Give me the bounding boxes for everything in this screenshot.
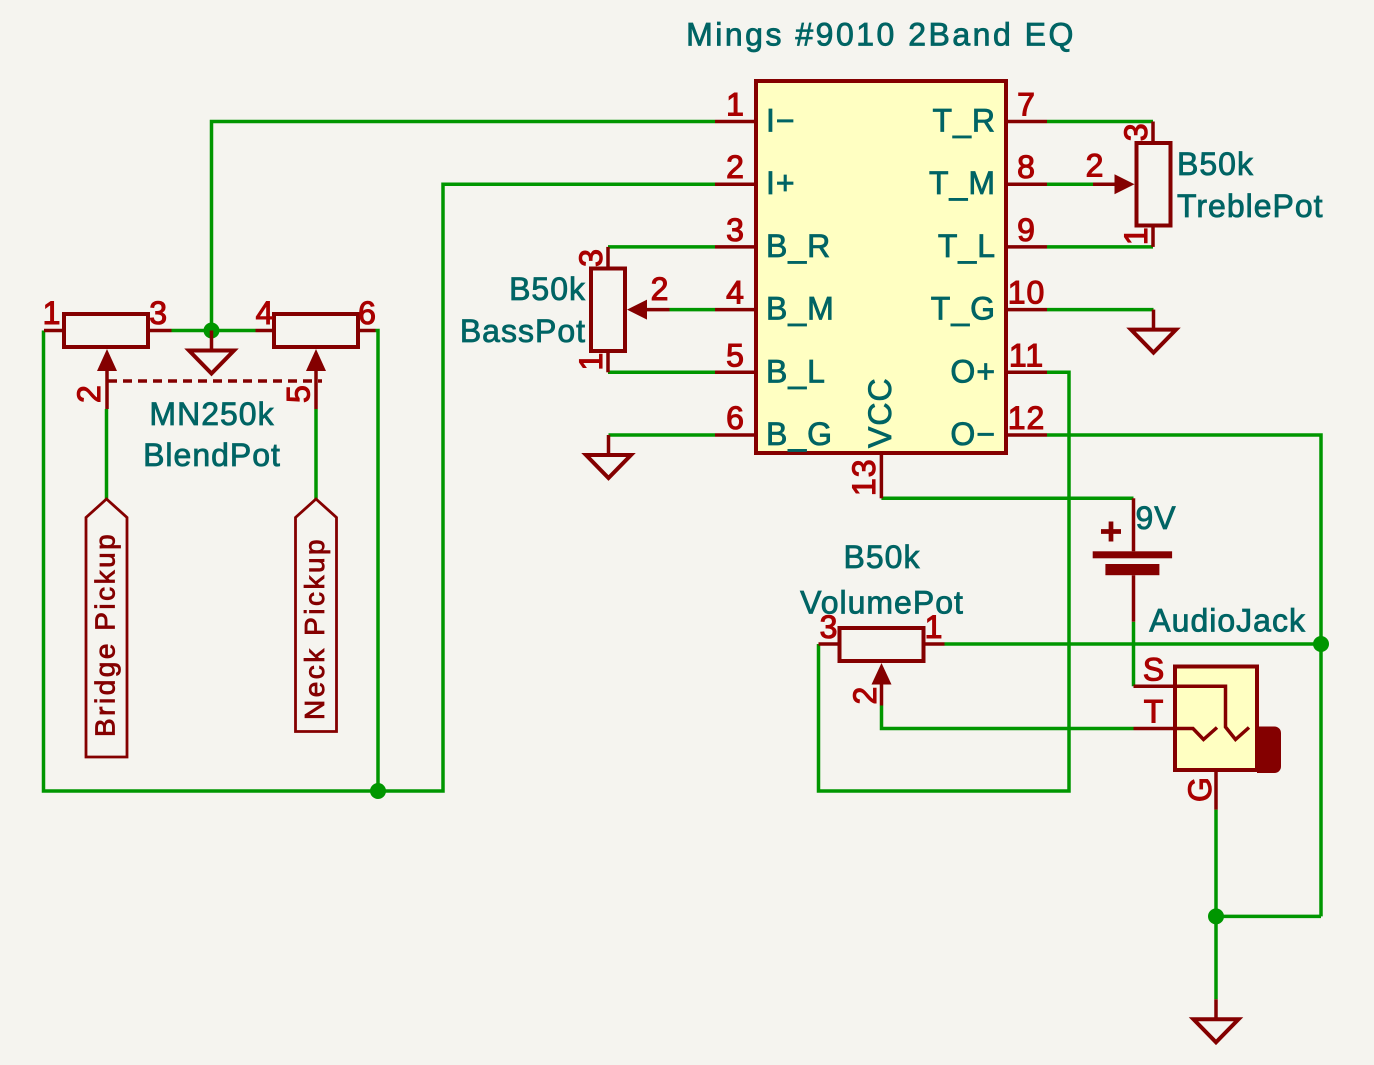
svg-text:T_M: T_M bbox=[929, 165, 996, 201]
svg-text:O−: O− bbox=[950, 416, 996, 452]
svg-text:5: 5 bbox=[281, 384, 317, 403]
svg-text:5: 5 bbox=[726, 337, 745, 373]
svg-text:Bridge Pickup: Bridge Pickup bbox=[90, 532, 121, 737]
svg-text:T: T bbox=[1144, 694, 1165, 730]
svg-text:B_G: B_G bbox=[766, 416, 833, 452]
svg-text:I+: I+ bbox=[766, 165, 796, 201]
svg-text:3: 3 bbox=[573, 248, 609, 267]
svg-text:B50k: B50k bbox=[844, 539, 921, 575]
svg-text:BlendPot: BlendPot bbox=[143, 437, 281, 473]
svg-text:2: 2 bbox=[651, 271, 670, 307]
svg-text:1: 1 bbox=[43, 295, 62, 331]
svg-text:3: 3 bbox=[149, 295, 168, 331]
svg-text:1: 1 bbox=[573, 352, 609, 371]
svg-text:BassPot: BassPot bbox=[460, 313, 586, 349]
svg-text:6: 6 bbox=[358, 295, 377, 331]
svg-text:O+: O+ bbox=[950, 353, 996, 389]
svg-text:TreblePot: TreblePot bbox=[1177, 188, 1324, 224]
svg-text:Mings #9010 2Band EQ: Mings #9010 2Band EQ bbox=[686, 17, 1076, 53]
svg-text:10: 10 bbox=[1008, 275, 1046, 311]
svg-text:6: 6 bbox=[726, 400, 745, 436]
svg-text:VCC: VCC bbox=[862, 377, 898, 448]
svg-text:12: 12 bbox=[1008, 400, 1046, 436]
svg-text:9: 9 bbox=[1017, 212, 1036, 248]
svg-text:2: 2 bbox=[1086, 148, 1105, 184]
svg-text:1: 1 bbox=[726, 87, 745, 123]
svg-text:3: 3 bbox=[1118, 122, 1154, 141]
svg-text:T_G: T_G bbox=[931, 291, 996, 327]
svg-text:MN250k: MN250k bbox=[149, 396, 274, 432]
svg-text:2: 2 bbox=[847, 686, 883, 705]
svg-text:11: 11 bbox=[1009, 337, 1044, 373]
svg-text:2: 2 bbox=[726, 149, 745, 185]
svg-text:13: 13 bbox=[846, 458, 882, 496]
svg-text:B50k: B50k bbox=[509, 271, 586, 307]
svg-text:B_M: B_M bbox=[766, 291, 835, 327]
svg-text:9V: 9V bbox=[1136, 500, 1177, 536]
svg-text:2: 2 bbox=[71, 384, 107, 403]
svg-text:4: 4 bbox=[726, 275, 745, 311]
svg-text:4: 4 bbox=[256, 295, 275, 331]
svg-text:B_L: B_L bbox=[766, 353, 826, 389]
svg-text:1: 1 bbox=[1118, 226, 1154, 245]
svg-text:B50k: B50k bbox=[1177, 146, 1254, 182]
svg-text:7: 7 bbox=[1017, 87, 1036, 123]
svg-text:3: 3 bbox=[726, 212, 745, 248]
svg-text:I−: I− bbox=[766, 103, 796, 139]
svg-text:T_L: T_L bbox=[938, 228, 996, 264]
svg-text:Neck Pickup: Neck Pickup bbox=[299, 537, 330, 720]
svg-text:S: S bbox=[1143, 651, 1165, 687]
svg-text:8: 8 bbox=[1017, 149, 1036, 185]
svg-text:3: 3 bbox=[820, 609, 839, 645]
svg-text:AudioJack: AudioJack bbox=[1149, 603, 1306, 639]
svg-text:B_R: B_R bbox=[766, 228, 831, 264]
svg-text:1: 1 bbox=[925, 609, 944, 645]
svg-text:T_R: T_R bbox=[933, 103, 996, 139]
svg-text:G: G bbox=[1182, 776, 1218, 802]
